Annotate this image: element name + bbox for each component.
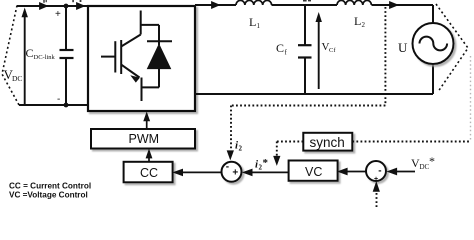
label L1	[249, 15, 261, 30]
transistor Q1 IGBT	[101, 11, 142, 102]
block VC	[289, 161, 338, 181]
block PWM	[91, 129, 195, 149]
block CC	[124, 162, 173, 183]
node current arrow after inverter	[212, 2, 220, 9]
label Cf	[276, 41, 288, 57]
wire CC to PWM arrow	[146, 150, 152, 162]
capacitor C DC-link	[60, 6, 74, 105]
svg-text:Cf: Cf	[329, 47, 336, 54]
node sum junction S1	[222, 162, 242, 182]
wire sum1 to CC arrow	[173, 169, 221, 176]
label VDC	[4, 67, 23, 83]
capacitor Cf branch	[298, 5, 312, 94]
node i2 arrow into sum1	[227, 151, 233, 160]
svg-text:*: *	[263, 157, 269, 169]
svg-text:C: C	[276, 41, 284, 55]
label VCf	[322, 41, 337, 54]
wire VDC* reference	[387, 168, 415, 175]
node grid dashed bracket	[436, 4, 468, 91]
wire synch output dotted	[277, 142, 304, 158]
node VDC measurement arrow	[22, 9, 28, 106]
wire bottom DC bus	[19, 104, 88, 106]
svg-text:2: 2	[239, 145, 243, 153]
node VCf measurement arrow	[316, 13, 322, 89]
svg-text:2: 2	[362, 21, 366, 29]
wire AC bottom	[195, 93, 433, 95]
label C DC-link	[26, 46, 56, 61]
inductor L2	[337, 0, 371, 5]
wire i2 feedback dotted	[231, 7, 385, 150]
svg-text:CC = Current Control: CC = Current Control	[9, 182, 91, 191]
svg-text:synch: synch	[310, 135, 345, 150]
node sum junction S2	[366, 161, 386, 183]
node VDC feedback arrow into sum2	[373, 182, 379, 192]
svg-text:L: L	[249, 15, 256, 29]
svg-text:1: 1	[257, 22, 261, 30]
svg-text:CC: CC	[140, 166, 158, 180]
wire source vertical bottom	[432, 65, 434, 95]
svg-text:*: *	[429, 154, 435, 168]
svg-text:+: +	[55, 9, 61, 20]
svg-text:PWM: PWM	[129, 132, 160, 146]
svg-text:VC =Voltage Control: VC =Voltage Control	[9, 191, 88, 200]
inductor L1	[236, 0, 272, 5]
wire AC top from inverter	[195, 4, 236, 6]
wire synch input dotted from grid	[352, 141, 470, 143]
node Q1 emitter arrowhead	[130, 75, 140, 82]
inverter box U1	[88, 6, 195, 111]
node current arrow grid	[390, 2, 399, 9]
diode D1 freewheeling	[141, 25, 172, 88]
svg-text:DC-link: DC-link	[34, 54, 56, 61]
wire PWM to inverter arrow	[144, 112, 150, 129]
wire between L1 and L2	[272, 4, 338, 6]
svg-text:-: -	[226, 162, 229, 173]
node current arrow left	[40, 3, 48, 10]
label VDC*	[411, 154, 435, 171]
node junction dot top	[64, 4, 69, 9]
wire i2* reference line	[243, 169, 289, 176]
node junction dot bottom	[64, 103, 69, 108]
node synch arrow down	[274, 156, 280, 165]
label cropped marks top edge	[43, 0, 311, 3]
label L2	[354, 14, 366, 29]
svg-text:VC: VC	[305, 165, 322, 179]
svg-text:C: C	[26, 46, 34, 60]
wire top DC bus	[17, 5, 88, 7]
svg-text:-: -	[57, 94, 60, 105]
wire grid voltage sense dotted light	[470, 56, 472, 142]
node current arrow into inverter	[77, 3, 85, 10]
svg-text:f: f	[285, 49, 288, 57]
node VDC dashed bracket	[2, 6, 19, 106]
wire source vertical top	[432, 5, 434, 23]
source U grid	[413, 23, 454, 64]
label i2*	[255, 157, 269, 172]
svg-text:-: -	[378, 166, 381, 177]
svg-text:+: +	[232, 168, 238, 179]
wire after L2 to source	[372, 4, 434, 6]
wire sum2 to VC arrow	[338, 168, 366, 175]
svg-text:L: L	[354, 14, 361, 28]
wire VDC feedback dotted bottom	[376, 193, 378, 207]
svg-text:DC: DC	[12, 74, 22, 83]
svg-text:U: U	[398, 40, 408, 55]
block synch	[303, 133, 352, 151]
label i2	[235, 140, 243, 153]
